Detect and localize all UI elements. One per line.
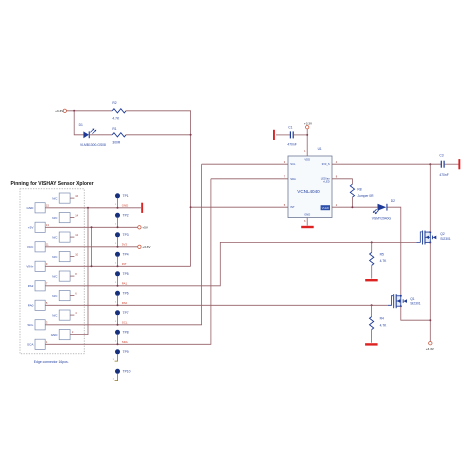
pin stub 4 (70, 314, 74, 316)
test point TP4 (115, 252, 120, 257)
svg-text:PA1: PA1 (122, 282, 128, 286)
svg-text:+5V: +5V (28, 226, 35, 230)
connector pin 7 (PA2) box (35, 281, 45, 291)
svg-text:+3.3V: +3.3V (304, 121, 313, 125)
wire Q2 source to +3.3V port (429, 243, 431, 342)
connector pin 9 (VIN+) box (35, 261, 45, 271)
svg-text:PA0: PA0 (28, 304, 34, 308)
svg-text:N/C: N/C (52, 235, 58, 239)
svg-text:N/C: N/C (52, 313, 58, 317)
svg-text:INT: INT (122, 262, 127, 266)
svg-text:TP8: TP8 (123, 331, 129, 335)
svg-text:Edge connector 16pos.: Edge connector 16pos. (34, 360, 69, 364)
TP7 stem (117, 315, 119, 325)
svg-text:N/C: N/C (52, 294, 58, 298)
LED D2 symbol (378, 204, 387, 211)
ground symbol (R5) (365, 279, 378, 281)
connector pin 12 (N/C) box (59, 232, 70, 242)
svg-text:Q1: Q1 (410, 297, 415, 301)
wire PA0 row to Q1 gate (45, 304, 388, 306)
svg-text:VDD: VDD (304, 157, 310, 161)
wire D1 cathode to R1 (90, 134, 112, 136)
resistor R4 body (370, 317, 374, 330)
svg-text:D1: D1 (79, 123, 83, 127)
resistor R1 body (112, 133, 126, 137)
wire +5V to VIN+ vertical (91, 227, 93, 266)
svg-text:VLMB1300-GS08: VLMB1300-GS08 (80, 143, 106, 147)
wire U1 pin8 to R8 (332, 179, 352, 184)
svg-text:R8: R8 (357, 188, 361, 192)
junction TP4/row (117, 265, 119, 267)
svg-text:TP6: TP6 (123, 292, 129, 296)
svg-text:R4: R4 (380, 317, 384, 321)
connector pin 13 (+5V) box (35, 222, 45, 232)
svg-text:470nF: 470nF (439, 173, 448, 177)
resistor R8 body (350, 184, 354, 197)
svg-text:Q2: Q2 (440, 232, 445, 236)
svg-text:4.7K: 4.7K (380, 259, 388, 263)
TP1 stem (117, 198, 119, 208)
svg-text:15: 15 (46, 203, 49, 207)
svg-text:SI2301: SI2301 (410, 301, 421, 305)
wire +5V row (45, 226, 138, 228)
svg-text:TP4: TP4 (123, 253, 129, 257)
ground symbol (U1) (301, 226, 314, 228)
svg-text:R1: R1 (112, 127, 116, 131)
wire R4 top lead (371, 305, 373, 316)
svg-text:PA0: PA0 (122, 301, 128, 305)
wire R8 bottom (351, 197, 353, 207)
connector pin 2 (GND) box (59, 330, 70, 340)
svg-text:C1: C1 (288, 125, 292, 129)
resistor R5 body (370, 252, 374, 265)
svg-text:470nF: 470nF (287, 143, 296, 147)
junction TP6/row (117, 304, 119, 306)
svg-text:+5V: +5V (142, 226, 149, 230)
svg-text:+3.3V: +3.3V (55, 109, 64, 113)
svg-text:D2: D2 (391, 199, 395, 203)
svg-text:4.7K: 4.7K (112, 116, 120, 120)
ground symbol (GND row) (141, 203, 143, 213)
ground symbol (C1) (273, 130, 275, 140)
pin stub 12 (70, 236, 74, 238)
TP6 stem (117, 296, 119, 306)
svg-text:VCNL4040: VCNL4040 (297, 189, 320, 194)
wire U1 pin2 to D2 (332, 206, 377, 208)
ground symbol (R4) (365, 343, 378, 345)
svg-text:N/C: N/C (52, 216, 58, 220)
test point TP3 (115, 232, 120, 237)
svg-text:SCL: SCL (27, 323, 33, 327)
wire R5 bottom lead (371, 265, 373, 278)
connector pin 11 (VCC) box (35, 242, 45, 252)
connector pin 8 (N/C) box (59, 271, 70, 281)
port +5V (138, 226, 141, 229)
svg-text:R2: R2 (112, 101, 116, 105)
wire Q1 source to rail (401, 306, 431, 320)
junction TP5/row (117, 285, 119, 287)
junction VDD/C1 (306, 134, 308, 136)
pin stub 14 (70, 217, 74, 219)
junction R8/pin2 wire (351, 206, 353, 208)
svg-text:300R: 300R (112, 141, 121, 145)
svg-text:U1: U1 (318, 147, 322, 151)
svg-text:TP2: TP2 (123, 214, 129, 218)
svg-text:+LED: +LED (323, 180, 330, 184)
test point TP1 (115, 193, 120, 198)
TP8 stem (117, 335, 119, 345)
connector pin 6 (N/C) box (59, 291, 70, 301)
wire SCL row up to U1 pin3 (45, 164, 201, 325)
transistor Q2 SI2301 (416, 231, 436, 245)
wire U1 pin4 to C3/Q2 rail (332, 163, 441, 165)
svg-text:3V3_S: 3V3_S (322, 162, 330, 166)
wire pin2 GND up to GND row (70, 208, 88, 335)
test point TP9 (115, 349, 120, 354)
connector pin 3 (SCL) box (35, 320, 45, 330)
svg-text:TP5: TP5 (123, 272, 129, 276)
svg-text:TP3: TP3 (123, 233, 129, 237)
junction Q1 source/rail (429, 319, 431, 321)
pin stub 8 (70, 275, 74, 277)
test point TP2 (115, 213, 120, 218)
svg-text:TP7: TP7 (123, 311, 129, 315)
junction R1/INT vertical (190, 134, 192, 136)
svg-text:VCC: VCC (27, 245, 34, 249)
wire R5 top lead (371, 242, 373, 252)
svg-text:SDA: SDA (290, 177, 296, 181)
connector pin 4 (N/C) box (59, 310, 70, 320)
wire VCC row (45, 246, 138, 248)
edge connector dashed box (20, 189, 84, 354)
junction pin5 wire/INT vertical (190, 206, 192, 208)
TP4 stem (117, 257, 119, 267)
connector pin 16 (N/C) box (59, 193, 70, 203)
connector pin 5 (PA0) box (35, 300, 45, 310)
connector pin 15 (GND) box (35, 203, 45, 213)
junction R4/PA0 row (371, 304, 373, 306)
svg-text:VIN+: VIN+ (26, 265, 33, 269)
junction TP3/row (117, 246, 119, 248)
svg-text:Jumper 0R: Jumper 0R (357, 194, 374, 198)
U1 pin1 VDD stub (306, 129, 308, 156)
svg-text:11: 11 (46, 242, 49, 246)
TP9 stem (115, 354, 118, 361)
junction TP7/row (117, 324, 119, 326)
svg-text:TP1: TP1 (123, 194, 129, 198)
transistor Q1 SI2301 (388, 294, 407, 308)
svg-text:Pinning for VISHAY Sensor Xplo: Pinning for VISHAY Sensor Xplorer (11, 181, 94, 187)
junction +5V/vertical (91, 226, 93, 228)
port +3.3V (VCC row) (138, 245, 141, 248)
wire SDA row up to U1 pin7 (45, 179, 211, 344)
wire R2 right to INT vertical (126, 111, 191, 266)
test point TP10 (115, 369, 120, 374)
wire D2 cathode to Q1 drain (388, 207, 401, 295)
wire branch down to D1 anode (74, 111, 83, 135)
pin stub 6 (70, 295, 74, 297)
wire U1 pin5 INT (191, 206, 288, 208)
svg-text:TP9: TP9 (123, 350, 129, 354)
svg-text:SI2301: SI2301 (440, 237, 451, 241)
svg-text:VSMY2940G: VSMY2940G (372, 217, 392, 221)
junction VIN+/vertical (91, 265, 93, 267)
svg-text:INT: INT (290, 205, 295, 209)
pin stub 16 (70, 197, 74, 199)
junction GND vertical/GND row (87, 207, 89, 209)
svg-text:3V3: 3V3 (122, 243, 128, 247)
port +3.3V (top left) (63, 109, 66, 112)
junction node R2/D1 branch (73, 110, 75, 112)
svg-text:+3.3V: +3.3V (142, 245, 151, 249)
wire R4 bottom lead (371, 330, 373, 343)
wire rail to Q2 drain (429, 164, 431, 232)
svg-text:R5: R5 (380, 252, 384, 256)
capacitor C1 (276, 134, 290, 136)
junction TP8/row (117, 343, 119, 345)
svg-text:C3: C3 (439, 154, 443, 158)
connector pin 14 (N/C) box (59, 213, 70, 223)
test point TP6 (115, 291, 120, 296)
svg-text:GND: GND (122, 204, 128, 208)
wire INT row (VIN+) (45, 265, 190, 267)
U1 bottom GND stub (306, 218, 308, 226)
resistor R2 body (112, 109, 126, 113)
test point TP7 (115, 310, 120, 315)
port +3.3V (bottom right) (429, 342, 432, 345)
svg-text:N/C: N/C (52, 196, 58, 200)
LED D1 symbol (83, 131, 89, 138)
test point TP5 (115, 271, 120, 276)
svg-text:SCL: SCL (122, 321, 128, 325)
TP3 stem (117, 237, 119, 247)
TP2 stem (117, 218, 119, 228)
LED D1 emission arrows (90, 129, 95, 134)
svg-text:N/C: N/C (52, 255, 58, 259)
capacitor C3 (441, 161, 442, 168)
wire GND row (45, 207, 141, 209)
svg-text:GND: GND (27, 206, 35, 210)
junction R5/gate row (371, 241, 373, 243)
svg-text:N/C: N/C (52, 274, 58, 278)
op IC U1 VCNL4040 body (288, 156, 332, 218)
svg-text:TP10: TP10 (123, 370, 131, 374)
svg-text:13: 13 (46, 223, 49, 227)
wire +3.3V port to R2 (67, 110, 113, 112)
TP10 stem (115, 374, 118, 381)
test point TP8 (115, 330, 120, 335)
junction pin4 rail/C3 (429, 163, 431, 165)
svg-text:+3.3V: +3.3V (426, 347, 435, 351)
svg-text:4.7K: 4.7K (380, 323, 388, 327)
U1 pin label VLED (321, 205, 330, 210)
LED D2 emission arrows (373, 209, 379, 214)
wire U1 pin7 SDA (211, 178, 288, 180)
svg-text:SDA: SDA (122, 340, 128, 344)
svg-text:GND: GND (304, 213, 310, 217)
junction TP2/row (117, 226, 119, 228)
svg-text:VLED: VLED (322, 206, 329, 210)
wire R1 right to INT vertical (126, 134, 191, 136)
connector pin 10 (N/C) box (59, 252, 70, 262)
pin stub 10 (70, 256, 74, 258)
svg-text:SCA: SCA (27, 343, 34, 347)
TP5 stem (117, 276, 119, 286)
wire PA1 row to Q2 gate (45, 242, 416, 285)
svg-text:SCL: SCL (290, 162, 296, 166)
junction TP1/row (117, 207, 119, 209)
port +3.3V (U1 VDD) (306, 126, 309, 129)
ground symbol (C3) (458, 159, 460, 169)
svg-text:GND: GND (51, 333, 59, 337)
wire U1 pin3 SCL (202, 163, 288, 165)
svg-text:PA2: PA2 (28, 284, 34, 288)
connector pin 1 (SCA) box (35, 339, 45, 349)
